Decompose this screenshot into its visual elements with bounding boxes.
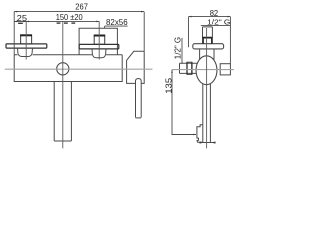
cartridge neck — [200, 49, 214, 60]
svg-text:1/2" G: 1/2" G — [207, 17, 230, 26]
top shower port 1/2"G — [203, 27, 213, 38]
svg-text:25: 25 — [17, 14, 28, 23]
1/2"G top label shelf — [201, 24, 231, 26]
svg-text:135: 135 — [164, 77, 173, 93]
ext lines of 82 — [189, 17, 231, 64]
right wall union (eccentric) — [220, 64, 230, 75]
technical dimension drawing: wall-mounted bath/shower mixer, front view (left) and side view (right) — [0, 0, 246, 151]
bath spout (down tube) — [54, 82, 71, 141]
mixer body (side, egg shape) — [196, 56, 217, 85]
82x56 label shelf + leader — [105, 26, 128, 28]
top flange — [193, 44, 224, 49]
down tube (side) — [200, 84, 216, 143]
horizontal centerline through both views — [5, 68, 234, 70]
right handle base dome — [92, 49, 106, 58]
svg-text:150 ±20: 150 ±20 — [56, 13, 84, 22]
right handle centerline — [98, 21, 100, 59]
right handle escutcheon box 82x56 — [79, 28, 117, 54]
right handle stem top (bold) — [94, 35, 105, 37]
svg-text:82x56: 82x56 — [106, 18, 128, 27]
extension line right of 267 — [143, 12, 145, 51]
left handle base dome — [18, 48, 33, 56]
dim 82 line (side view) — [189, 16, 231, 18]
hand-shower outlet tube (front) — [136, 79, 142, 118]
135 arrows — [171, 70, 173, 73]
right handle lever bar — [79, 44, 119, 49]
arrowheads — [14, 11, 230, 144]
diverter knob circle — [57, 63, 69, 75]
right end shower connector (front) — [127, 51, 145, 83]
150 arrows — [26, 21, 29, 23]
left handle centerline — [25, 21, 27, 59]
extension line left (x=14.2 doubles as body edge above) — [13, 12, 15, 55]
right handle stem — [94, 35, 105, 44]
dim 267 line — [14, 11, 144, 13]
267 arrows — [14, 11, 17, 13]
union nut — [187, 62, 192, 74]
spout centerline — [62, 21, 64, 148]
mixer body (front) — [14, 55, 122, 82]
left handle stem — [21, 35, 32, 44]
wall union tube (left, 1/2"G) — [180, 63, 198, 73]
1/2"G left label shelf + leader — [181, 38, 183, 64]
hose outlet bracket (side, bottom) — [197, 125, 203, 142]
dim 150/25 line — [14, 20, 99, 22]
tick dashes under dim texts — [18, 23, 23, 24]
side view vertical centerline — [206, 28, 208, 148]
dim 135 line — [172, 70, 196, 135]
svg-text:267: 267 — [75, 2, 88, 11]
body top edge segments (interrupted by handle bases) — [14, 54, 122, 56]
text 1/2"G left (rotated) — [174, 37, 183, 59]
dimension texts — [17, 2, 231, 93]
left handle lever bar — [6, 44, 47, 48]
text 135 (rotated) — [164, 77, 173, 93]
25 arrows — [14, 21, 17, 23]
82 arrows — [189, 16, 192, 18]
left handle stem top (bold) — [20, 34, 32, 36]
svg-text:1/2" G: 1/2" G — [174, 37, 183, 59]
